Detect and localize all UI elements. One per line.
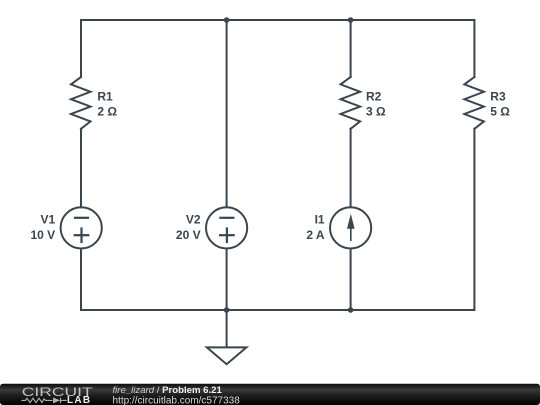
svg-text:3 Ω: 3 Ω — [366, 105, 386, 119]
svg-text:2 A: 2 A — [306, 228, 325, 242]
resistor R2 — [341, 77, 361, 129]
svg-text:LAB: LAB — [67, 395, 91, 405]
wire top rail — [81, 19, 474, 21]
voltage source V1 — [61, 207, 102, 248]
wire branch4 top lead — [473, 20, 475, 77]
wire branch1 bottom — [80, 249, 82, 311]
node top junction I1 — [348, 17, 354, 23]
resistor R1 — [71, 77, 91, 129]
resistor R3 — [464, 77, 484, 129]
svg-text:R3: R3 — [490, 89, 506, 103]
voltage source V2 — [206, 207, 247, 248]
wire ground stem — [226, 310, 228, 347]
wire bottom rail — [81, 309, 474, 311]
svg-text:I1: I1 — [315, 213, 325, 227]
logo CircuitLab — [22, 385, 93, 405]
svg-text:10 V: 10 V — [31, 228, 56, 242]
wire branch2 bottom — [226, 249, 228, 311]
svg-text:R1: R1 — [97, 89, 113, 103]
footer bar — [0, 384, 540, 405]
wire branch1 top lead — [80, 20, 82, 77]
svg-text:20 V: 20 V — [176, 228, 201, 242]
node bottom junction ground — [224, 307, 230, 313]
wire branch2 top — [226, 20, 228, 207]
svg-text:5 Ω: 5 Ω — [490, 105, 510, 119]
svg-text:V1: V1 — [41, 213, 56, 227]
wire branch4 bottom — [473, 129, 475, 310]
wire branch1 mid — [80, 129, 82, 208]
svg-text:2 Ω: 2 Ω — [97, 105, 117, 119]
current source I1 — [330, 207, 371, 248]
wire branch3 top lead — [350, 20, 352, 77]
wire branch3 mid — [350, 129, 352, 208]
ground — [207, 347, 247, 364]
footer credit text — [113, 385, 241, 405]
wire branch3 bottom — [350, 249, 352, 311]
svg-text:V2: V2 — [186, 213, 201, 227]
svg-text:R2: R2 — [366, 89, 382, 103]
node top junction V2 — [224, 17, 230, 23]
svg-text:http://circuitlab.com/c577338: http://circuitlab.com/c577338 — [113, 395, 241, 405]
node bottom junction I1 — [348, 307, 354, 313]
